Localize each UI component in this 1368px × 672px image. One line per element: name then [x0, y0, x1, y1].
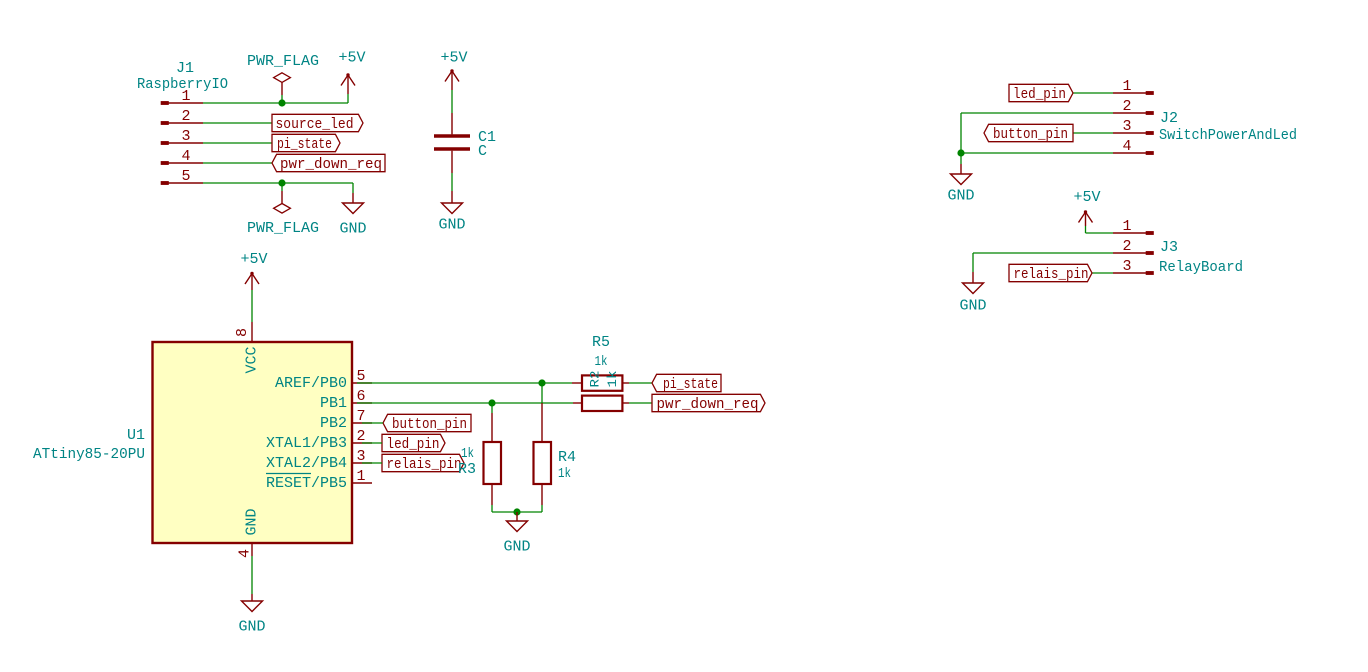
svg-text:GND: GND: [339, 221, 366, 238]
svg-text:4: 4: [1122, 138, 1131, 155]
svg-text:2: 2: [1122, 98, 1131, 115]
svg-text:U1: U1: [127, 427, 145, 444]
svg-text:1k: 1k: [558, 466, 571, 482]
svg-text:source_led: source_led: [276, 116, 354, 133]
svg-text:+5V: +5V: [440, 50, 467, 67]
svg-text:RESET/PB5: RESET/PB5: [266, 475, 347, 492]
svg-text:GND: GND: [438, 217, 465, 234]
svg-text:R5: R5: [592, 334, 610, 351]
svg-text:pi_state: pi_state: [277, 136, 332, 153]
svg-text:1: 1: [1122, 218, 1131, 235]
svg-text:SwitchPowerAndLed: SwitchPowerAndLed: [1159, 127, 1297, 144]
svg-text:1: 1: [1122, 78, 1131, 95]
svg-text:3: 3: [1122, 258, 1131, 275]
svg-text:VCC: VCC: [244, 346, 261, 373]
svg-text:led_pin: led_pin: [387, 436, 440, 453]
svg-text:3: 3: [1122, 118, 1131, 135]
svg-text:XTAL2/PB4: XTAL2/PB4: [266, 455, 347, 472]
svg-text:RelayBoard: RelayBoard: [1159, 259, 1243, 276]
svg-text:GND: GND: [244, 508, 261, 535]
svg-text:J2: J2: [1160, 110, 1178, 127]
svg-text:button_pin: button_pin: [993, 126, 1068, 143]
svg-text:led_pin: led_pin: [1013, 86, 1066, 103]
svg-text:2: 2: [1122, 238, 1131, 255]
svg-text:4: 4: [237, 549, 254, 558]
svg-text:C: C: [478, 143, 487, 160]
svg-text:XTAL1/PB3: XTAL1/PB3: [266, 435, 347, 452]
svg-text:5: 5: [181, 168, 190, 185]
svg-text:R2: R2: [588, 371, 603, 388]
svg-text:AREF/PB0: AREF/PB0: [275, 375, 347, 392]
svg-text:pi_state: pi_state: [663, 376, 718, 393]
svg-text:J1: J1: [176, 60, 194, 77]
svg-text:PB2: PB2: [320, 415, 347, 432]
svg-text:1k: 1k: [595, 354, 608, 370]
svg-text:PB1: PB1: [320, 395, 347, 412]
svg-text:GND: GND: [503, 539, 530, 556]
svg-text:J3: J3: [1160, 239, 1178, 256]
svg-text:relais_pin: relais_pin: [387, 456, 462, 473]
svg-text:4: 4: [181, 148, 190, 165]
svg-text:1k: 1k: [461, 446, 474, 462]
svg-text:relais_pin: relais_pin: [1014, 266, 1089, 283]
svg-text:+5V: +5V: [240, 251, 267, 268]
svg-text:GND: GND: [238, 619, 265, 636]
svg-text:R4: R4: [558, 449, 576, 466]
svg-text:1: 1: [181, 88, 190, 105]
svg-text:2: 2: [181, 108, 190, 125]
svg-text:R3: R3: [458, 461, 476, 478]
svg-text:ATtiny85-20PU: ATtiny85-20PU: [33, 446, 145, 463]
svg-text:1: 1: [356, 468, 365, 485]
svg-text:button_pin: button_pin: [392, 416, 467, 433]
svg-text:1k: 1k: [605, 370, 620, 387]
svg-text:3: 3: [181, 128, 190, 145]
svg-text:pwr_down_req: pwr_down_req: [280, 156, 382, 173]
svg-text:GND: GND: [947, 188, 974, 205]
svg-text:+5V: +5V: [1073, 189, 1100, 206]
svg-text:8: 8: [234, 328, 251, 337]
svg-text:pwr_down_req: pwr_down_req: [657, 396, 759, 413]
svg-text:PWR_FLAG: PWR_FLAG: [247, 220, 319, 237]
svg-text:GND: GND: [959, 298, 986, 315]
svg-text:+5V: +5V: [338, 50, 365, 67]
svg-text:PWR_FLAG: PWR_FLAG: [247, 53, 319, 70]
